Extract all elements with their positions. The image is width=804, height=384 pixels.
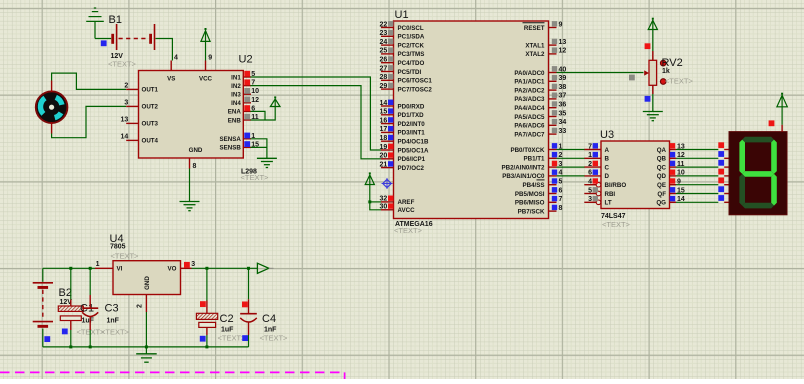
svg-text:QB: QB xyxy=(657,156,667,163)
svg-text:1: 1 xyxy=(96,261,100,268)
svg-text:<TEXT>: <TEXT> xyxy=(260,334,289,343)
svg-text:<TEXT>: <TEXT> xyxy=(111,252,140,261)
svg-text:OUT3: OUT3 xyxy=(142,121,159,128)
svg-text:<TEXT>: <TEXT> xyxy=(602,220,631,229)
svg-text:3: 3 xyxy=(124,99,128,106)
svg-text:4: 4 xyxy=(174,55,178,62)
svg-text:6: 6 xyxy=(559,187,563,194)
wire U2 IN2 to U1 PD6 xyxy=(251,86,382,159)
svg-text:13: 13 xyxy=(559,39,567,46)
wire ground to battery B1 xyxy=(95,38,111,40)
svg-text:12: 12 xyxy=(559,48,567,55)
svg-text:D: D xyxy=(605,173,610,180)
svg-text:PA0/ADC0: PA0/ADC0 xyxy=(514,70,545,77)
svg-text:9: 9 xyxy=(559,21,563,28)
svg-text:VCC: VCC xyxy=(199,76,213,83)
wire U3 QC to display xyxy=(676,160,729,167)
svg-text:QC: QC xyxy=(657,164,667,171)
power output arrow xyxy=(257,263,273,273)
capacitor C2 1uF xyxy=(196,268,246,347)
ground (U2 sense) xyxy=(257,158,277,167)
svg-text:IN2: IN2 xyxy=(231,83,241,90)
svg-text:3: 3 xyxy=(588,196,592,203)
motor (DC motor) xyxy=(36,81,68,134)
svg-text:5: 5 xyxy=(588,187,592,194)
svg-text:20: 20 xyxy=(380,153,388,160)
capacitor C4 1nF xyxy=(240,268,288,347)
svg-text:37: 37 xyxy=(559,93,567,100)
power arrow (ENA/ENB) xyxy=(270,96,280,106)
svg-text:PC2/TCK: PC2/TCK xyxy=(398,42,425,49)
svg-text:2: 2 xyxy=(588,161,592,168)
svg-text:PB6/MISO: PB6/MISO xyxy=(515,200,545,207)
wire input rail xyxy=(43,267,95,269)
svg-text:PC6/TOSC1: PC6/TOSC1 xyxy=(398,78,433,85)
wire U2 GND pin to ground xyxy=(189,169,191,202)
svg-text:PA7/ADC7: PA7/ADC7 xyxy=(514,131,545,138)
svg-text:OUT2: OUT2 xyxy=(142,104,159,111)
svg-text:1uF: 1uF xyxy=(221,327,234,334)
junction nodes input rail xyxy=(69,267,91,349)
svg-text:PD7/OC2: PD7/OC2 xyxy=(398,165,425,172)
svg-text:PA5/ADC5: PA5/ADC5 xyxy=(514,114,545,121)
svg-text:OUT1: OUT1 xyxy=(142,87,159,94)
wire U3 QE to display xyxy=(676,178,729,185)
svg-text:B: B xyxy=(605,156,610,163)
svg-text:PB5/MOSI: PB5/MOSI xyxy=(515,191,545,198)
svg-text:PD5/OC1A: PD5/OC1A xyxy=(398,147,429,154)
svg-text:QF: QF xyxy=(657,191,666,198)
svg-text:AVCC: AVCC xyxy=(398,207,416,214)
net state indicator (gray, wiper) xyxy=(629,75,635,81)
svg-text:B2: B2 xyxy=(59,287,72,299)
svg-text:28: 28 xyxy=(380,74,388,81)
svg-text:PB3/AIN1/OC0: PB3/AIN1/OC0 xyxy=(502,173,545,180)
svg-text:14: 14 xyxy=(121,133,129,140)
wire U1 AREF AVCC to power xyxy=(368,185,381,210)
svg-text:RBI: RBI xyxy=(605,191,616,198)
wire U1 PB2 to U3 C xyxy=(557,166,585,168)
potentiometer RV2 1k xyxy=(644,51,693,94)
wire U3 QG to display xyxy=(676,195,729,202)
svg-text:33: 33 xyxy=(559,128,567,135)
svg-text:8: 8 xyxy=(559,205,563,212)
svg-text:SENSA: SENSA xyxy=(219,136,241,143)
svg-text:PD1/TXD: PD1/TXD xyxy=(398,112,425,119)
wire RV2 bottom to ground xyxy=(652,94,654,112)
svg-text:5: 5 xyxy=(559,179,563,186)
svg-text:ENB: ENB xyxy=(228,117,242,124)
U1 origin marker (blue diamond) xyxy=(382,178,393,189)
svg-text:U2: U2 xyxy=(239,54,253,66)
power arrow (U2 VCC) xyxy=(201,28,210,61)
svg-text:XTAL1: XTAL1 xyxy=(525,42,545,49)
svg-text:26: 26 xyxy=(380,57,388,64)
svg-text:22: 22 xyxy=(380,21,388,28)
svg-text:IN4: IN4 xyxy=(231,100,241,107)
svg-text:24: 24 xyxy=(380,39,388,46)
wire U3 QB to display xyxy=(676,151,729,158)
svg-text:PA4/ADC4: PA4/ADC4 xyxy=(514,105,545,112)
wire motor + to U2 OUT1 xyxy=(52,73,127,89)
battery B2 12V xyxy=(33,268,73,347)
svg-text:GND: GND xyxy=(144,276,151,290)
svg-text:PB0/T0XCK: PB0/T0XCK xyxy=(510,147,545,154)
svg-text:PA6/ADC6: PA6/ADC6 xyxy=(514,123,545,130)
svg-text:<TEXT>: <TEXT> xyxy=(108,60,137,69)
svg-text:BI/RBO: BI/RBO xyxy=(605,182,627,189)
capacitor C3 1nF xyxy=(82,268,129,347)
svg-text:PB4/SS: PB4/SS xyxy=(522,182,544,189)
wire U3 QD to display xyxy=(676,169,729,176)
net state indicator (blue, C1 bottom) xyxy=(62,329,68,335)
svg-text:18: 18 xyxy=(380,135,388,142)
svg-text:34: 34 xyxy=(559,119,567,126)
svg-text:7805: 7805 xyxy=(110,244,126,251)
svg-text:23: 23 xyxy=(380,30,388,37)
svg-text:RESET: RESET xyxy=(524,25,545,32)
wire U3 QF to display xyxy=(676,186,729,193)
svg-text:17: 17 xyxy=(380,126,388,133)
svg-text:C: C xyxy=(605,164,610,171)
net state indicator (blue, B2 bottom) xyxy=(44,336,50,342)
svg-text:39: 39 xyxy=(559,75,567,82)
power arrow (display anode) xyxy=(777,93,787,125)
svg-text:U3: U3 xyxy=(600,129,614,141)
svg-text:VS: VS xyxy=(167,76,175,83)
svg-text:GND: GND xyxy=(189,147,203,154)
svg-text:QG: QG xyxy=(656,200,666,207)
svg-text:16: 16 xyxy=(380,117,388,124)
ground (U2 GND) xyxy=(180,202,200,211)
power arrow (RV2 top) xyxy=(648,18,657,51)
svg-text:PC1/SDA: PC1/SDA xyxy=(398,34,425,41)
svg-text:13: 13 xyxy=(121,116,129,123)
svg-text:PC4/TDO: PC4/TDO xyxy=(398,60,425,67)
svg-text:OUT4: OUT4 xyxy=(142,138,159,145)
svg-text:1k: 1k xyxy=(662,68,670,75)
svg-text:PA3/ADC3: PA3/ADC3 xyxy=(514,96,545,103)
wire U2 IN1 to U1 PD5 xyxy=(251,77,382,150)
svg-text:QE: QE xyxy=(657,182,666,189)
battery B1 12V xyxy=(108,14,155,69)
ground (U4) xyxy=(145,347,147,354)
display anode pin xyxy=(781,125,783,132)
svg-text:10: 10 xyxy=(251,88,259,95)
svg-text:38: 38 xyxy=(559,84,567,91)
net state indicator (red, RV2 top) xyxy=(645,43,651,49)
svg-text:PD6/ICP1: PD6/ICP1 xyxy=(398,156,426,163)
svg-text:3: 3 xyxy=(191,261,195,268)
net state indicator (red, U4 VO) xyxy=(184,262,190,268)
svg-text:QA: QA xyxy=(657,147,667,154)
net state indicator (blue, RV2 bottom) xyxy=(645,96,651,102)
svg-text:C3: C3 xyxy=(105,303,119,315)
svg-text:ENA: ENA xyxy=(228,109,242,116)
svg-text:RV2: RV2 xyxy=(662,57,683,69)
net state indicator (red, display anode) xyxy=(769,120,775,126)
svg-text:PC7/TOSC2: PC7/TOSC2 xyxy=(398,86,433,93)
svg-text:6: 6 xyxy=(588,170,592,177)
svg-text:VI: VI xyxy=(117,266,123,273)
ground (top left, inverted) xyxy=(86,8,104,39)
svg-text:29: 29 xyxy=(380,83,388,90)
svg-text:PC5/TDI: PC5/TDI xyxy=(398,69,422,76)
svg-text:27: 27 xyxy=(380,65,388,72)
svg-text:PD4/OC1B: PD4/OC1B xyxy=(398,139,429,146)
svg-text:36: 36 xyxy=(559,102,567,109)
power arrow (AREF/AVCC) xyxy=(365,172,374,184)
svg-text:7: 7 xyxy=(559,196,563,203)
net state indicators C2 xyxy=(200,301,206,341)
capacitor C1 1uF xyxy=(58,268,105,347)
wire U2 ENA ENB to power xyxy=(251,107,276,121)
svg-text:35: 35 xyxy=(559,110,567,117)
svg-text:PA2/ADC2: PA2/ADC2 xyxy=(514,87,545,94)
svg-text:2: 2 xyxy=(124,82,128,89)
svg-text:<TEXT>: <TEXT> xyxy=(394,226,423,235)
svg-text:25: 25 xyxy=(380,48,388,55)
wire U4 GND to bottom rail xyxy=(145,312,148,348)
svg-text:PB1/T1: PB1/T1 xyxy=(524,156,546,163)
svg-text:19: 19 xyxy=(380,144,388,151)
svg-text:1: 1 xyxy=(588,152,592,159)
svg-text:8: 8 xyxy=(193,163,197,170)
svg-text:PD2/INT0: PD2/INT0 xyxy=(398,121,426,128)
svg-text:2: 2 xyxy=(137,304,144,308)
7-segment display xyxy=(729,132,787,215)
svg-text:XTAL2: XTAL2 xyxy=(525,51,545,58)
svg-text:PD0/RXD: PD0/RXD xyxy=(398,103,425,110)
svg-text:<TEXT>: <TEXT> xyxy=(241,173,270,182)
svg-text:PC0/SCL: PC0/SCL xyxy=(398,25,424,32)
svg-text:1nF: 1nF xyxy=(107,318,120,325)
svg-text:VO: VO xyxy=(168,266,177,273)
MCU U1 ATMEGA16 xyxy=(380,9,567,235)
regulator U4 7805 xyxy=(95,233,195,312)
wire output rail xyxy=(192,267,258,269)
svg-text:AREF: AREF xyxy=(398,199,415,206)
svg-text:QD: QD xyxy=(657,173,667,180)
svg-text:PB2/AIN0/INT2: PB2/AIN0/INT2 xyxy=(502,164,546,171)
svg-text:C4: C4 xyxy=(262,313,276,325)
svg-text:SENSB: SENSB xyxy=(219,145,241,152)
junction nodes output rail xyxy=(205,267,250,349)
wire U3 QA to display xyxy=(676,142,729,149)
wire motor - to U2 OUT2 xyxy=(52,106,127,137)
svg-text:21: 21 xyxy=(380,161,388,168)
svg-text:B1: B1 xyxy=(109,14,122,26)
net state indicator (blue) xyxy=(101,40,107,46)
sheet border xyxy=(0,372,345,379)
svg-text:A: A xyxy=(605,147,610,154)
svg-text:1nF: 1nF xyxy=(264,327,277,334)
wire bottom rail xyxy=(43,346,249,348)
svg-text:U1: U1 xyxy=(395,9,409,21)
net state indicators C4 xyxy=(242,302,248,342)
wire U1 PB1 to U3 B xyxy=(557,157,585,159)
svg-text:4: 4 xyxy=(588,179,592,186)
svg-text:PD3/INT1: PD3/INT1 xyxy=(398,130,426,137)
svg-text:<TEXT>: <TEXT> xyxy=(218,334,247,343)
ground (RV2) xyxy=(643,112,663,121)
svg-text:74LS47: 74LS47 xyxy=(601,213,626,220)
BCD decoder U3 74LS47 xyxy=(584,129,685,229)
svg-text:PA1/ADC1: PA1/ADC1 xyxy=(514,79,545,86)
svg-text:IN1: IN1 xyxy=(231,74,241,81)
svg-text:14: 14 xyxy=(380,100,388,107)
svg-text:15: 15 xyxy=(380,109,388,116)
svg-text:7: 7 xyxy=(588,143,592,150)
svg-text:C2: C2 xyxy=(220,313,234,325)
svg-text:LT: LT xyxy=(605,200,612,207)
wire battery B1 to U2 VS pin 4 xyxy=(156,39,173,61)
svg-text:PC3/TMS: PC3/TMS xyxy=(398,51,425,58)
svg-text:12: 12 xyxy=(251,97,259,104)
svg-text:<TEXT>: <TEXT> xyxy=(665,76,694,85)
wire U1 PB3 to U3 D xyxy=(557,175,585,177)
svg-text:PB7/SCK: PB7/SCK xyxy=(518,208,545,215)
wire U1 PB0 to U3 A xyxy=(557,149,585,151)
svg-text:<TEXT>: <TEXT> xyxy=(101,328,130,337)
motor driver U2 L298 xyxy=(121,54,270,183)
svg-text:1uF: 1uF xyxy=(82,318,95,325)
wire U1 PA0 to RV2 wiper xyxy=(557,72,644,74)
svg-text:9: 9 xyxy=(208,55,212,62)
wire U2 SENSA SENSB to ground xyxy=(251,139,267,159)
svg-text:IN3: IN3 xyxy=(231,92,241,99)
